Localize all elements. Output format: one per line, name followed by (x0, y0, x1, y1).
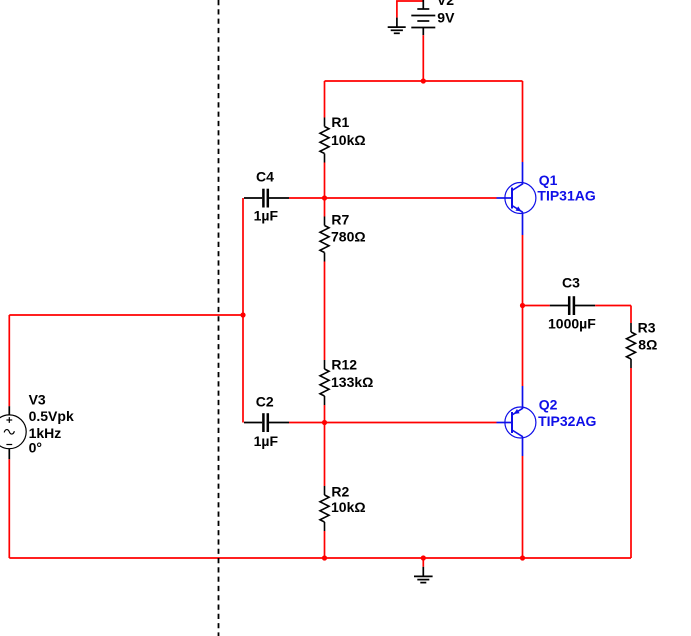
wire R2 to bottom rail (324, 531, 326, 558)
svg-text:TIP32AG: TIP32AG (538, 413, 596, 429)
wire battery top to ground (red) (397, 1, 423, 18)
wire Q2 collector to bottom rail (522, 456, 524, 558)
svg-text:8Ω: 8Ω (638, 337, 657, 353)
wire corner to R3 (630, 306, 632, 324)
wire output node to C3 (523, 305, 550, 307)
node output junction (520, 303, 525, 308)
svg-text:1kHz: 1kHz (29, 425, 62, 441)
wire Q1 emitter to output node (522, 235, 524, 306)
resistor R2 (320, 486, 329, 531)
wire base node to Q1 base (325, 197, 497, 199)
wire C2 to lower base node (red) (289, 422, 325, 424)
svg-text:C2: C2 (256, 394, 274, 410)
wire top rail (325, 80, 523, 82)
wire battery to top rail (red) (422, 35, 424, 81)
capacitor C3 (550, 296, 595, 315)
wire R3 to bottom rail (630, 368, 632, 558)
wire base node to R7 (324, 198, 326, 217)
node bottom rail R2 (322, 555, 327, 560)
node bottom rail Q2 (520, 555, 525, 560)
wire input branch vertical (242, 198, 244, 423)
svg-text:R2: R2 (331, 483, 349, 499)
ground (bottom) (414, 567, 433, 583)
source V3 (0, 406, 26, 459)
ground (top, near V2) (388, 18, 406, 34)
node R1/R7/C4/Q1 base (322, 195, 327, 200)
svg-text:1000µF: 1000µF (548, 316, 596, 332)
resistor R3 (627, 323, 636, 368)
capacitor C4 (244, 189, 289, 208)
wire C3 to R3 corner (595, 305, 631, 307)
svg-text:0.5Vpk: 0.5Vpk (29, 408, 74, 424)
resistor R7 (320, 217, 329, 262)
node input junction (240, 312, 245, 317)
svg-text:10kΩ: 10kΩ (331, 499, 366, 515)
node R12/C2/Q2 base (322, 420, 327, 425)
wire C4 to base node (red) (289, 197, 325, 199)
svg-text:R3: R3 (638, 320, 656, 336)
svg-text:C3: C3 (562, 275, 580, 291)
resistor R1 (320, 118, 329, 163)
svg-text:10kΩ: 10kΩ (331, 132, 366, 148)
node top rail junction (421, 78, 426, 83)
wire left edge top (V3 to input row) (8, 315, 10, 406)
svg-text:V2: V2 (437, 0, 454, 8)
svg-text:Q2: Q2 (539, 397, 558, 413)
wire lower base node to Q2 base (325, 422, 497, 424)
svg-text:C4: C4 (256, 169, 274, 185)
wire lower mid branch to R2 (324, 423, 326, 487)
transistor Q1 (497, 162, 536, 235)
dashed boundary line (218, 0, 220, 636)
svg-text:R1: R1 (331, 114, 349, 130)
wire R7 to R12 (324, 262, 326, 361)
wire R12 to lower base node (324, 405, 326, 423)
battery V2 (411, 0, 435, 35)
wire R1 to base node (324, 163, 326, 199)
wire top rail to Q1 collector (522, 81, 524, 162)
resistor R12 (320, 360, 329, 405)
svg-text:TIP31AG: TIP31AG (537, 187, 595, 203)
svg-text:133kΩ: 133kΩ (331, 374, 373, 390)
node bottom rail ground (421, 555, 426, 560)
wire output node to Q2 emitter (522, 306, 524, 387)
svg-text:R12: R12 (331, 357, 357, 373)
svg-text:9V: 9V (437, 10, 455, 26)
svg-text:V3: V3 (29, 392, 46, 408)
wire bottom rail (9, 557, 631, 559)
svg-text:1µF: 1µF (254, 208, 279, 224)
transistor Q2 (497, 386, 536, 456)
svg-text:Q1: Q1 (539, 172, 558, 188)
capacitor C2 (244, 413, 289, 432)
svg-text:1µF: 1µF (254, 433, 279, 449)
svg-text:780Ω: 780Ω (331, 229, 366, 245)
wire left edge bottom (V3 to bottom rail) (8, 459, 10, 558)
wire top rail to R1 (324, 81, 326, 118)
wire ground stub (red) (422, 558, 424, 567)
wire input row (9, 314, 243, 316)
svg-text:R7: R7 (331, 212, 349, 228)
svg-text:0°: 0° (29, 440, 42, 456)
